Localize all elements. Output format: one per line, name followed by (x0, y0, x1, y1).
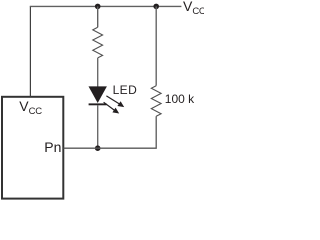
wire R1 to LED anode (97, 58, 99, 87)
resistor R2 (151, 86, 161, 117)
svg-text:100 k: 100 k (165, 92, 195, 106)
svg-text:VCC: VCC (183, 0, 204, 17)
LED D1 cathode bar (89, 103, 107, 105)
wire R2 bottom to Pn rail corner (98, 116, 157, 148)
wire R2 top stub (155, 6, 157, 85)
svg-text:LED: LED (113, 83, 138, 97)
wire VCC rail horizontal (30, 5, 182, 7)
junction node A (rail to R1) (95, 4, 101, 10)
resistor R1 (93, 27, 103, 58)
wire LED cathode to node Pn (97, 105, 99, 148)
wire Pn pin to node Pn (64, 147, 98, 149)
svg-text:Pn: Pn (44, 139, 61, 155)
IC box U1 (2, 97, 63, 199)
wire from box top to VCC rail (29, 6, 31, 96)
LED light emission arrow 1 (106, 96, 124, 107)
junction node B (rail to R2) (153, 4, 159, 10)
wire R1 top stub (97, 6, 99, 27)
junction node Pn (95, 145, 101, 151)
LED light emission arrow 2 (104, 102, 120, 113)
LED D1 anode triangle (89, 86, 107, 103)
